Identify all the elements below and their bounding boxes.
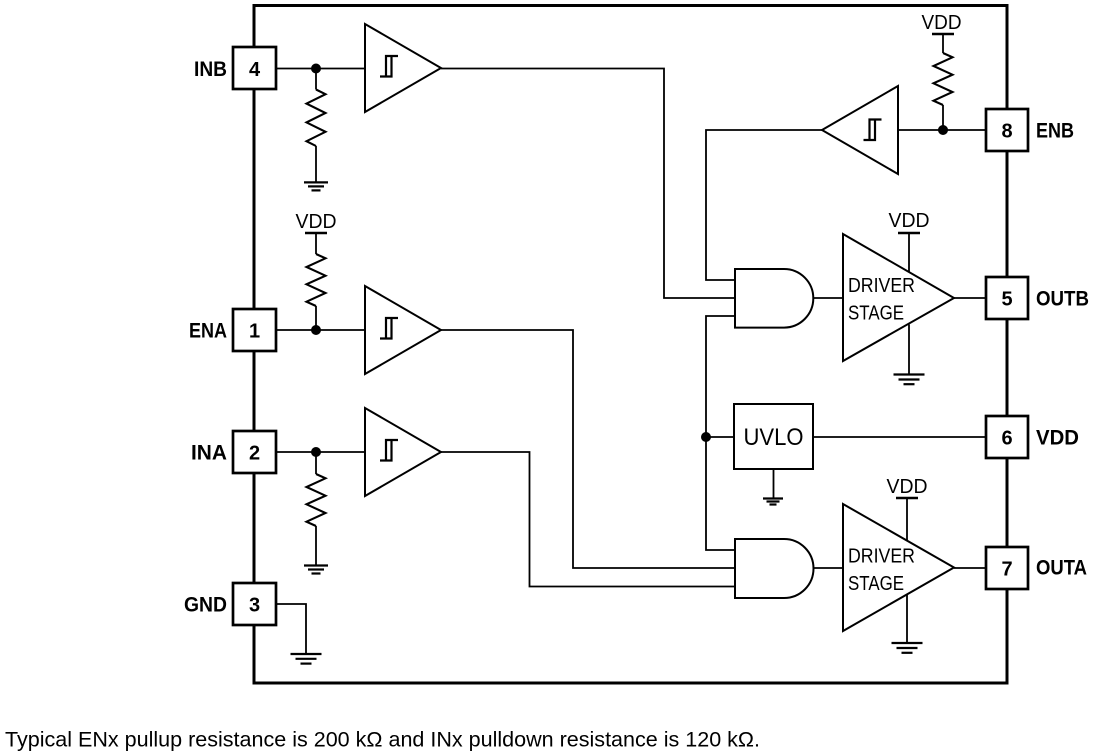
svg-text:ENB: ENB [1036, 120, 1074, 143]
wire UVLO block to ground [773, 469, 775, 499]
wire GND pin to ground [276, 604, 306, 654]
junction node ENB [938, 125, 948, 135]
pin box 7 OUTA [986, 547, 1028, 589]
svg-text:VDD: VDD [887, 476, 928, 498]
ground symbol INB [304, 182, 328, 190]
wire AND gate B output to driver stage B [814, 297, 844, 299]
resistor R-INB pulldown [307, 90, 326, 147]
pin box 6 VDD [986, 416, 1028, 458]
UVLO block [734, 404, 813, 469]
hysteresis glyph U-ENA [380, 318, 398, 339]
pin box 3 GND [233, 583, 276, 625]
svg-text:VDD: VDD [922, 12, 962, 34]
svg-text:DRIVER: DRIVER [848, 275, 915, 297]
wire VDD to R-ENA [315, 233, 317, 254]
wire driver stage A to ground [906, 595, 908, 644]
svg-text:OUTB: OUTB [1036, 288, 1089, 311]
wire ENB buffer output to AND gate B top input [706, 130, 822, 280]
wire UVLO net AND-B bottom to AND-A top [706, 316, 735, 550]
svg-text:5: 5 [1001, 288, 1012, 310]
wire VDD to driver stage B [908, 233, 910, 272]
VDD rail driver stage B [898, 232, 920, 234]
wire driver stage A output to OUTA pin [954, 567, 986, 569]
wire INB buffer output to AND gate B middle input [441, 69, 735, 299]
svg-text:VDD: VDD [296, 211, 337, 233]
junction node UVLO [701, 432, 711, 442]
pin box 2 INA [233, 431, 276, 473]
hysteresis glyph U-INB [380, 56, 398, 77]
svg-text:3: 3 [249, 594, 260, 616]
svg-text:6: 6 [1001, 427, 1012, 449]
ground symbol driver stage A [892, 643, 923, 653]
svg-text:DRIVER: DRIVER [848, 546, 915, 568]
svg-text:VDD: VDD [889, 210, 930, 232]
svg-text:VDD: VDD [1036, 427, 1079, 450]
resistor R-INA pulldown [307, 474, 326, 526]
svg-text:INA: INA [191, 442, 227, 465]
ground symbol INA [304, 566, 328, 574]
wire VDD to R-ENB [942, 34, 944, 53]
svg-text:STAGE: STAGE [848, 573, 904, 595]
VDD rail driver stage A [896, 497, 918, 499]
hysteresis glyph U-INA [380, 440, 398, 461]
wire INA buffer output to AND gate A bottom input [441, 452, 735, 587]
svg-text:GND: GND [184, 594, 227, 617]
wire INB pin to buffer [276, 68, 365, 70]
svg-text:UVLO: UVLO [744, 424, 804, 451]
driver stage B triangle [843, 234, 954, 361]
resistor R-INA pulldown stem top [315, 452, 317, 474]
schmitt buffer U-INB [365, 24, 441, 112]
hysteresis glyph U-ENB [864, 120, 882, 141]
wire R-ENB to ENB node [942, 105, 944, 130]
junction node ENA [311, 325, 321, 335]
resistor R-INB pulldown stem top [315, 69, 317, 90]
wire INA pin to buffer [276, 451, 365, 453]
AND gate B [735, 269, 813, 328]
wire R-INB to ground [315, 146, 317, 182]
schmitt buffer U-ENA [365, 286, 441, 374]
VDD rail ENB pullup [932, 33, 954, 35]
wire driver stage B output to OUTB pin [954, 297, 986, 299]
wire R-INA to ground [315, 526, 317, 566]
wire UVLO output to VDD pin [813, 436, 986, 438]
schmitt buffer U-ENB [822, 86, 898, 174]
ground symbol UVLO [763, 499, 783, 505]
AND gate A [735, 539, 814, 598]
wire ENA pin to buffer [276, 329, 365, 331]
pin box 4 INB [233, 47, 276, 89]
svg-text:Typical ENx pullup resistance: Typical ENx pullup resistance is 200 kΩ … [5, 729, 760, 752]
svg-text:INB: INB [194, 58, 227, 81]
svg-text:ENA: ENA [189, 320, 227, 343]
pin box 1 ENA [233, 309, 276, 351]
resistor R-ENA pullup [307, 254, 326, 306]
svg-text:1: 1 [249, 320, 260, 342]
wire AND gate A output to driver stage A [814, 567, 844, 569]
VDD rail ENA pullup [305, 232, 327, 234]
svg-text:8: 8 [1001, 120, 1012, 142]
ground symbol GND pin [291, 654, 322, 664]
wire driver stage B to ground [908, 325, 910, 375]
wire R-ENA to ENA node [315, 306, 317, 330]
svg-text:7: 7 [1001, 558, 1012, 580]
wire VDD to driver stage A [906, 498, 908, 540]
schmitt buffer U-INA [365, 408, 441, 496]
pin box 5 OUTB [986, 277, 1028, 319]
driver stage A triangle [843, 504, 954, 631]
wire UVLO node to UVLO block [706, 436, 734, 438]
junction node INA [311, 447, 321, 457]
ground symbol driver stage B [894, 375, 925, 385]
svg-text:OUTA: OUTA [1036, 557, 1087, 580]
pin box 8 ENB [986, 109, 1028, 151]
resistor R-ENB pullup [934, 53, 953, 105]
svg-text:2: 2 [249, 442, 260, 464]
wire ENB pin to buffer [898, 129, 986, 131]
wire ENA buffer output to AND gate A middle input [441, 330, 735, 568]
junction node INB [311, 64, 321, 74]
svg-text:4: 4 [249, 59, 261, 81]
svg-text:STAGE: STAGE [848, 303, 904, 325]
device outline box [254, 6, 1007, 684]
